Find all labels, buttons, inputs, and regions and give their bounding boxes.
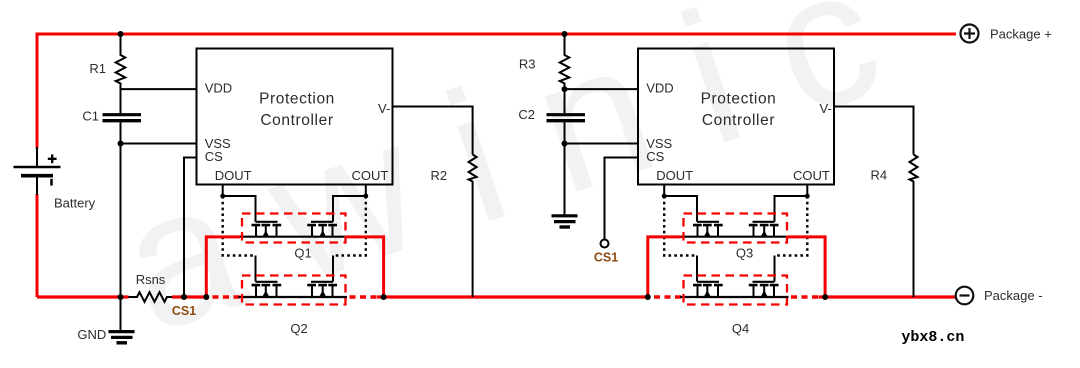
box Q4 red dashed xyxy=(684,276,788,305)
wire CS1 stub left xyxy=(184,158,197,298)
wire Q3 rail xyxy=(680,236,789,238)
node COUT2 junction xyxy=(805,194,810,199)
wire C1 bottom to GND xyxy=(120,122,122,331)
wire red Q3 right lead xyxy=(787,237,825,297)
wire bus red mid segment xyxy=(172,295,208,298)
wire CS2 stub xyxy=(605,158,639,240)
wire bus red dotted right of Q2 xyxy=(350,295,380,298)
node red Q3 right junction xyxy=(822,294,828,300)
wire VSS1 xyxy=(121,143,197,145)
node DOUT2 junction xyxy=(662,194,667,199)
svg-text:VDD: VDD xyxy=(205,81,232,96)
wire battery black leads xyxy=(36,147,38,195)
node red Q3 left junction xyxy=(645,294,651,300)
wire C2 bottom to GND2 xyxy=(564,122,566,215)
resistor Rsns xyxy=(129,292,173,302)
wire Q4 left gate feed xyxy=(696,256,698,282)
node CS1 right terminal circle xyxy=(601,240,609,248)
svg-text:DOUT: DOUT xyxy=(215,168,252,183)
wire DOUT1 solid xyxy=(223,185,256,222)
wire VDD2 xyxy=(565,88,639,90)
svg-text:V-: V- xyxy=(378,101,390,116)
wire bus red dotted left of Q4 xyxy=(654,295,682,298)
wire bus red solid center xyxy=(377,295,649,298)
svg-text:Controller: Controller xyxy=(702,112,775,129)
svg-text:Protection: Protection xyxy=(259,91,335,108)
resistor R4 xyxy=(910,155,918,298)
transistor Q3 right mosfet xyxy=(749,222,779,237)
svg-text:C2: C2 xyxy=(518,107,535,122)
transistor Q1 right mosfet xyxy=(307,222,337,237)
wire battery negative red vertical xyxy=(36,194,39,297)
wire top red bus xyxy=(37,34,956,149)
wire bus red solid right xyxy=(819,295,956,298)
transistor Q2 right mosfet xyxy=(307,282,337,297)
svg-text:R3: R3 xyxy=(519,57,536,72)
svg-text:R4: R4 xyxy=(871,167,888,182)
ground GND2 xyxy=(552,216,578,227)
svg-text:COUT: COUT xyxy=(793,168,830,183)
wire Q2 right gate feed xyxy=(332,256,334,282)
wire COUT1 dotted to Q2 gate xyxy=(333,196,366,256)
wire bottom red bus left xyxy=(37,295,129,298)
wire DOUT2 dotted to Q4 gate xyxy=(664,196,697,256)
svg-text:Package +: Package + xyxy=(990,27,1052,42)
terminal Package - xyxy=(956,287,974,305)
box Q1 red dashed xyxy=(242,214,346,243)
svg-text:DOUT: DOUT xyxy=(656,168,693,183)
svg-text:Protection: Protection xyxy=(701,91,777,108)
svg-text:Controller: Controller xyxy=(260,112,333,129)
transistor Q2 left mosfet xyxy=(252,282,282,297)
wire DOUT2 solid xyxy=(664,185,697,222)
wire Q4 right gate feed xyxy=(774,256,776,282)
svg-text:ybx8.cn: ybx8.cn xyxy=(901,329,964,346)
svg-text:Q3: Q3 xyxy=(736,246,753,261)
wire VSS2 xyxy=(565,143,639,145)
transistor Q1 left mosfet xyxy=(252,222,282,237)
svg-text:V-: V- xyxy=(820,101,832,116)
svg-text:VDD: VDD xyxy=(646,81,673,96)
transistor Q4 left mosfet xyxy=(693,282,723,297)
resistor R2 xyxy=(469,155,477,298)
wire Q1 rail xyxy=(239,236,348,238)
svg-text:COUT: COUT xyxy=(351,168,388,183)
node VDD2 junction xyxy=(562,86,568,92)
wire DOUT1 dotted to Q2 gate xyxy=(223,196,256,256)
wire Q4 rail xyxy=(680,296,789,298)
node R3 top bus junction xyxy=(562,31,568,37)
node R1 top bus junction xyxy=(118,31,124,37)
wire V-2 to R4 xyxy=(834,107,914,155)
capacitor C1 xyxy=(103,115,142,121)
resistor R3 xyxy=(560,34,570,113)
svg-text:CS: CS xyxy=(205,149,223,164)
wire bus red dotted right of Q4 xyxy=(791,295,819,298)
svg-text:CS1: CS1 xyxy=(172,304,196,318)
svg-text:GND: GND xyxy=(77,327,106,342)
node GND bus junction xyxy=(118,294,124,300)
wire VDD1 xyxy=(121,88,197,90)
box Q3 red dashed xyxy=(684,214,788,243)
resistor R1 xyxy=(116,34,126,113)
wire red Q1 left lead xyxy=(206,237,240,297)
wire COUT1 solid xyxy=(333,185,366,222)
wire Q2 rail xyxy=(239,296,348,298)
op-amp U1 Protection Controller box xyxy=(197,49,393,185)
wire COUT2 solid xyxy=(775,185,808,222)
wire bus red dotted left of Q2 xyxy=(213,295,241,298)
wire Q2 left gate feed xyxy=(255,256,257,282)
svg-text:Q2: Q2 xyxy=(290,321,307,336)
svg-text:R2: R2 xyxy=(431,168,448,183)
svg-text:Rsns: Rsns xyxy=(136,272,166,287)
transistor Q4 right mosfet xyxy=(749,282,779,297)
transistor Q3 left mosfet xyxy=(693,222,723,237)
svg-text:CS: CS xyxy=(646,149,664,164)
wire red Q1 right lead xyxy=(346,237,384,297)
svg-text:C1: C1 xyxy=(82,109,99,124)
ground GND1 xyxy=(109,332,135,343)
node CS1 left junction xyxy=(181,294,187,300)
svg-text:R1: R1 xyxy=(89,61,106,76)
node DOUT1 junction xyxy=(220,194,225,199)
terminal Package + xyxy=(961,25,979,43)
svg-text:CS1: CS1 xyxy=(594,251,618,265)
svg-text:Battery: Battery xyxy=(54,196,96,211)
wire COUT2 dotted to Q4 gate xyxy=(775,196,808,256)
node red right junction xyxy=(381,294,387,300)
wire V-1 to R2 xyxy=(393,107,473,155)
node COUT1 junction xyxy=(363,194,368,199)
node VSS2 junction xyxy=(562,141,568,147)
capacitor C2 xyxy=(547,115,586,121)
wire red Q3 left lead xyxy=(648,237,682,297)
svg-text:Package -: Package - xyxy=(984,288,1043,303)
svg-text:Q1: Q1 xyxy=(294,246,311,261)
svg-text:Q4: Q4 xyxy=(732,321,749,336)
box Q2 red dashed xyxy=(242,276,346,305)
node VSS1 junction xyxy=(118,141,124,147)
battery BT1 xyxy=(14,154,61,185)
op-amp U2 Protection Controller box xyxy=(638,49,834,185)
node red left junction xyxy=(203,294,209,300)
